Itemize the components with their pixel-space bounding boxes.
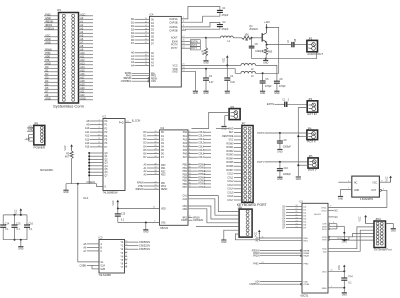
svg-text:NC: NC [334,211,338,213]
svg-text:A14: A14 [255,280,260,283]
svg-text:COL4: COL4 [198,146,205,148]
svg-text:470pF: 470pF [222,14,229,17]
svg-text:13: 13 [125,248,127,250]
svg-text:16: 16 [145,21,147,23]
wire drop to ground at ACIA [343,288,345,293]
node audio out junction [205,37,207,39]
svg-text:2: 2 [189,131,190,133]
svg-text:COL5: COL5 [227,192,234,194]
svg-text:23: 23 [182,47,184,49]
ground under C5 [260,91,265,95]
ground at R7 [263,60,268,64]
svg-text:ROW5: ROW5 [226,162,234,164]
svg-text:CS6581N: CS6581N [121,80,132,83]
svg-text:GND: GND [45,97,51,100]
svg-text:ROW6: ROW6 [226,166,234,168]
wire ACIA XTL0 NC stub [328,211,338,213]
svg-text:5V Serial Port: 5V Serial Port [374,248,392,252]
svg-text:VDD: VDD [322,271,327,273]
svg-text:POWER: POWER [34,146,46,150]
svg-text:23: 23 [295,220,297,222]
svg-text:NC: NC [354,182,358,184]
node emitter junction [266,44,268,46]
svg-text:22: 22 [154,182,156,184]
svg-text:GND: GND [80,97,86,100]
svg-text:470pF: 470pF [279,86,286,88]
svg-text:PHI2: PHI2 [161,186,167,188]
svg-text:COL6: COL6 [227,196,234,198]
svg-text:CS6551N: CS6551N [249,284,259,286]
svg-text:COL4: COL4 [227,189,234,191]
svg-text:XTL0: XTL0 [321,211,327,213]
svg-text:GND: GND [296,179,301,181]
svg-text:27: 27 [295,208,297,210]
svg-text:17: 17 [145,25,147,27]
svg-text:36: 36 [154,170,156,172]
power VCC arrow at ACIA [339,265,345,272]
wire 688 P inputs A8-A15 [85,120,108,149]
svg-text:G: G [105,187,107,189]
svg-text:26: 26 [295,211,297,213]
svg-text:27: 27 [154,152,156,154]
capacitor C14 0.1 [0,215,10,240]
svg-text:JP9: JP9 [34,122,39,125]
wire 688 P=Q output [119,120,141,125]
resistor R1 1k to ground [202,38,208,61]
svg-text:ROW5: ROW5 [198,181,206,183]
wire CB1 to JP8 [188,206,239,219]
svg-text:10: 10 [145,55,147,57]
svg-text:CS2B: CS2B [181,220,187,222]
svg-text:33: 33 [154,131,156,133]
capacitor C3 0.47 [203,69,214,91]
svg-text:COL2: COL2 [198,139,205,141]
svg-text:IC1: IC1 [103,116,107,119]
wire ACIA control pins [252,250,310,258]
label SID inside right pin names [169,17,178,73]
capacitor C1 470pF [217,7,229,17]
svg-text:29: 29 [154,145,156,147]
svg-text:COL5: COL5 [198,150,205,152]
capacitor C4 0.22 [224,65,235,90]
svg-text:ROW1: ROW1 [198,168,206,170]
svg-text:12: 12 [189,170,191,172]
svg-text:TxD: TxD [323,251,327,253]
svg-text:15: 15 [145,18,147,20]
wire RxD to serial pin2 [328,227,374,249]
svg-text:10K: 10K [245,34,250,36]
svg-text:11: 11 [98,135,100,137]
wire JP8 ground pin [224,230,239,239]
svg-text:PB7: PB7 [183,187,188,189]
connector JP10 serial port [374,218,392,252]
svg-text:8: 8 [126,266,127,268]
svg-text:C13: C13 [121,214,126,216]
wire serial ground pin6 [344,239,374,241]
svg-text:15: 15 [125,241,127,243]
svg-text:/RESIN: /RESIN [135,188,143,191]
svg-text:17: 17 [98,146,100,148]
svg-text:9: 9 [333,222,334,224]
wire SID pin24 POTX stub [181,43,200,47]
svg-text:/IRQ: /IRQ [182,218,187,220]
svg-text:CS6551N: CS6551N [139,247,150,251]
svg-text:PB2: PB2 [183,171,188,173]
svg-text:20: 20 [145,35,147,37]
svg-text:CS6522N: CS6522N [193,220,203,222]
svg-text:37: 37 [154,167,156,169]
svg-text:GND: GND [354,190,359,192]
svg-text:IOSELN: IOSELN [45,27,54,30]
node select junction [77,183,79,185]
svg-text:38: 38 [154,164,156,166]
wire SID data pins D0-D7 [131,18,155,46]
svg-text:IC2: IC2 [160,127,164,130]
node ACIA ground junction [343,287,345,289]
wire ACIA PHI2 pin [253,262,309,265]
svg-text:17: 17 [189,186,191,188]
svg-text:C15: C15 [16,223,21,225]
svg-text:DCD: DCD [322,229,327,231]
svg-text:POT Y: POT Y [308,168,317,172]
svg-text:5: 5 [383,188,384,190]
svg-text:2: 2 [183,21,184,23]
svg-text:GND: GND [45,41,51,44]
wire TxD to serial pin3 [328,230,374,251]
IC X1 oscillator 1.8432MHz [352,176,382,201]
svg-text:11: 11 [189,167,191,169]
svg-text:21: 21 [295,226,297,228]
svg-text:GND: GND [277,179,282,181]
svg-text:GND: GND [18,249,23,251]
svg-text:A13: A13 [85,138,90,141]
svg-text:26: 26 [154,156,156,158]
svg-text:CSBN: CSBN [80,264,87,267]
wire CTS DSR DCD tie [328,222,344,240]
node VDD junction [343,270,345,272]
svg-text:CS6581N: CS6581N [139,240,150,244]
IC U3 65C51 ACIA [300,200,329,297]
resistor R2 4K7 [65,151,73,159]
svg-text:NC: NC [334,217,338,219]
node VCC row junction [226,64,228,66]
ground right of serial port [386,224,397,233]
wire ACIA chip selects [249,280,309,286]
svg-text:VCC: VCC [223,57,225,62]
inductor L1 [206,36,242,43]
wire CB2 to JP8 [188,209,239,223]
wire ACIA ground pin [328,287,344,289]
svg-text:3: 3 [183,25,184,27]
capacitor C5 470pF [260,73,273,90]
svg-text:15: 15 [98,142,100,144]
wire POTY net to jack [257,161,308,164]
svg-text:GND: GND [63,192,68,194]
svg-text:POTY: POTY [171,47,178,50]
svg-text:GND: GND [391,231,396,233]
svg-text:21: 21 [189,216,191,218]
connector JP4 POT X jack [307,128,318,143]
svg-text:VCC: VCC [339,265,341,270]
svg-text:9: 9 [126,262,127,264]
wire POTX jack ground [298,135,307,137]
capacitor C13 0.1 [115,209,126,223]
wire SID pin23 POTY stub [181,47,200,51]
svg-text:POTY: POTY [257,161,264,164]
svg-text:21: 21 [145,39,147,41]
svg-text:7: 7 [348,188,349,190]
wire 688 Q inputs bus [88,152,108,184]
svg-text:11: 11 [125,255,127,257]
wire JP8 VCC pin loop [235,233,259,240]
svg-text:65C51: 65C51 [301,294,309,298]
svg-text:VCC: VCC [113,200,115,205]
svg-text:GND: GND [28,129,34,132]
svg-text:ROW3: ROW3 [198,174,206,176]
svg-text:13: 13 [145,64,147,66]
wire SID pin26 EXT IN stub [181,40,200,44]
svg-text:28: 28 [295,205,297,207]
svg-text:ROW4: ROW4 [198,177,206,179]
svg-text:ROW0: ROW0 [198,165,206,167]
capacitor C10 1000pF [277,162,292,177]
svg-text:VCC: VCC [372,182,377,184]
node base junction [251,37,253,39]
node modem tie junction [343,232,345,234]
wire C12 to EXT IN jack [287,103,307,105]
wire +12V to VDD filter drop [267,28,279,74]
svg-text:7: 7 [189,149,190,151]
power VCC arrow above R2 [65,144,73,151]
capacitor C12 coupling [282,100,290,107]
wire SID pin27 AUDIO OUT node [181,37,206,39]
svg-text:22: 22 [145,42,147,44]
wire base to Q1 [252,37,262,39]
svg-text:65C22: 65C22 [160,226,168,230]
svg-text:0.47: 0.47 [209,82,214,84]
wire Q1 emitter node [266,42,268,45]
svg-text:CAP1B: CAP1B [169,20,178,24]
svg-text:A11: A11 [85,131,90,134]
IC IC3 74LS138 decoder [99,237,125,277]
wire VIA IRQ stub [188,216,200,219]
capacitor C17 0.1 [341,271,353,288]
svg-text:560: 560 [268,51,273,53]
svg-text:COL6: COL6 [198,153,205,155]
IC IC1 74LS688 comparator [103,116,126,195]
node ground junction [145,222,147,224]
wire SID pin3 CAP2A to C2 [181,22,220,27]
svg-text:RESN: RESN [161,189,168,191]
svg-text:ROW7: ROW7 [226,170,234,172]
svg-text:VCC: VCC [65,145,67,150]
svg-text:ROW2: ROW2 [226,151,234,153]
ground at JP8 [221,240,226,244]
wire select drop to decoder [78,184,99,262]
inductor L3 [241,71,279,78]
svg-text:GND: GND [277,151,282,153]
wire rail to ground [20,240,22,247]
svg-text:GND: GND [338,198,343,200]
wire JP6 signal [192,112,230,128]
svg-text:25: 25 [182,64,184,66]
resistor R6 10k [242,34,252,42]
svg-text:11: 11 [145,58,147,60]
svg-text:CB1: CB1 [183,206,188,208]
svg-text:19: 19 [126,121,128,123]
svg-text:1000pF: 1000pF [283,174,291,176]
wire POWER pins [24,125,33,141]
svg-text:COL1: COL1 [198,136,205,138]
svg-text:VCC: VCC [256,232,258,237]
svg-text:ROW4: ROW4 [226,159,234,161]
svg-text:G2A: G2A [101,264,106,267]
svg-text:GND: GND [143,232,148,234]
svg-text:13: 13 [98,138,100,140]
wire CA1 to JP8 [188,196,239,212]
wire SID control pins [121,72,158,83]
wire select line horizontal [66,183,97,185]
svg-text:CS6522N: CS6522N [139,244,150,248]
svg-text:21: 21 [261,262,263,264]
svg-text:/IRQN: /IRQN [253,256,260,258]
svg-text:1: 1 [348,180,349,182]
svg-text:GND: GND [203,93,208,95]
svg-text:AUDIO OUT: AUDIO OUT [307,52,323,56]
IC IC2 65C22 VIA [160,127,189,230]
svg-text:27: 27 [182,36,184,38]
wire 138 outputs [120,240,150,269]
ground at JP6 [221,126,226,130]
wire 138 enable G2A G2B [80,264,106,271]
wire SID VDD row [181,69,241,74]
svg-text:G2B: G2B [101,269,106,271]
wire L2 to C6 [256,65,277,81]
capacitor C2 470pF [217,21,229,31]
capacitor C8 1000pF base to ground [249,38,264,59]
inductor L2 [241,63,256,71]
svg-text:COL1: COL1 [227,177,234,179]
svg-text:A10: A10 [85,127,90,130]
wire CA2 to JP8 [188,199,239,215]
ground decoupling [18,247,23,251]
power VCC arrow at VIA [113,200,119,209]
svg-text:PB0: PB0 [183,165,188,167]
svg-text:A12: A12 [85,135,90,138]
wire ACIA data pins [282,205,307,229]
wire C2 to SID pin4 CAP2B [181,27,220,30]
power +12V node [264,20,270,33]
svg-text:POTX: POTX [257,132,264,135]
wire oscillator OUT to ACIA XTL1 [328,190,387,207]
ground under C9 [277,149,282,153]
wire ACIA RxC NC stub [328,217,338,219]
svg-text:32: 32 [154,135,156,137]
svg-text:EXTIN: EXTIN [267,103,274,106]
svg-text:12: 12 [145,61,147,63]
svg-text:13: 13 [189,173,191,175]
svg-text:25: 25 [295,214,297,216]
ground at serial port [342,240,347,244]
connector JP8 aux port [238,207,253,238]
svg-text:PHI2: PHI2 [304,263,310,265]
svg-text:ROW1: ROW1 [226,147,234,149]
svg-text:VSS: VSS [161,223,166,225]
svg-text:28: 28 [154,149,156,151]
wire VIA port B pins ROW0-7 [183,163,211,189]
svg-text:1K: 1K [202,54,205,56]
ground pot bus [296,177,301,181]
svg-text:GND: GND [172,70,178,73]
wire JP1 left pin stubs [44,13,59,100]
svg-text:RS0: RS0 [161,165,166,167]
svg-text:COL7: COL7 [227,200,234,202]
svg-text:30: 30 [154,142,156,144]
wire C7 to audio jack [294,44,307,46]
connector JP9 POWER [34,122,46,149]
svg-text:IC3: IC3 [99,237,103,240]
svg-text:10: 10 [189,163,191,165]
svg-text:2N2222: 2N2222 [249,28,258,31]
svg-text:IRQB: IRQB [304,256,310,258]
svg-text:25: 25 [154,185,156,187]
svg-text:18: 18 [145,28,147,30]
svg-text:6: 6 [330,205,331,207]
wire JP8 pin5 stub [196,226,239,228]
wire keyboard pin stubs [216,128,242,201]
svg-text:ROW6: ROW6 [198,184,206,186]
node VDD row junction C3 [205,68,207,70]
svg-text:DLA: DLA [84,197,89,200]
svg-text:VCC: VCC [228,140,233,142]
svg-text:RS1: RS1 [161,168,166,170]
svg-text:11: 11 [261,237,263,239]
svg-text:ROW7: ROW7 [198,187,206,189]
svg-text:XTL1: XTL1 [321,207,327,209]
wire VIA chip select stub [188,220,203,222]
wire JP6 ground [225,116,229,126]
connector JP7 KEYBOARD PORT [237,123,268,208]
wire oscillator NC pin1 [338,181,352,183]
ground at select line [63,190,68,194]
svg-text:CA2: CA2 [183,198,188,201]
svg-text:PB4: PB4 [183,178,188,180]
svg-text:22: 22 [295,223,297,225]
wire JP1 right pin stubs [79,13,94,100]
capacitor C9 1000pF [277,133,292,149]
capacitor C7 coupling [288,38,297,47]
svg-text:CA1: CA1 [183,195,188,198]
svg-text:1: 1 [331,286,332,288]
wire C1 to SID pin2 CAP1B [181,13,220,22]
wire drop to ground [145,223,147,230]
svg-text:1.8432MHz: 1.8432MHz [360,197,374,201]
node L3 junction C5 [262,72,264,74]
svg-text:4K7: 4K7 [65,156,70,158]
ground at SID [193,91,198,95]
ground at C13 [143,230,148,234]
svg-text:IC4: IC4 [150,13,154,16]
svg-text:5: 5 [189,142,190,144]
svg-text:GND: GND [322,288,327,290]
svg-text:ROW0: ROW0 [226,143,234,145]
ground at oscillator [338,196,343,200]
capacitor C16 0.1 [24,215,34,240]
svg-text:COL3: COL3 [227,185,234,187]
svg-text:8: 8 [381,180,382,182]
svg-text:RS2: RS2 [161,171,166,173]
svg-text:VCC: VCC [15,209,17,214]
